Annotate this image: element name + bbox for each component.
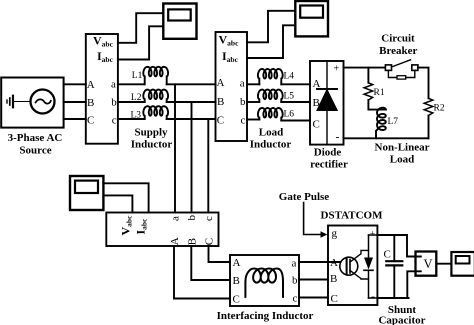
svg-text:L3: L3 bbox=[131, 110, 142, 120]
svg-text:L6: L6 bbox=[284, 110, 295, 120]
wire Iabc1 to scope1 bbox=[118, 26, 163, 59]
VI measurement block 1 bbox=[86, 34, 118, 144]
wire scope3 in1 bbox=[103, 183, 148, 212]
svg-text:Circuit: Circuit bbox=[381, 32, 415, 44]
wire to V box + bbox=[407, 235, 421, 257]
wire + rail to R1 bbox=[367, 68, 369, 83]
svg-text:3-Phase AC: 3-Phase AC bbox=[8, 132, 63, 144]
svg-text:C: C bbox=[331, 293, 338, 305]
wire Vabc1 to scope1 bbox=[118, 13, 163, 43]
svg-text:Source: Source bbox=[19, 145, 51, 157]
svg-text:B: B bbox=[186, 238, 198, 245]
svg-text:c: c bbox=[293, 293, 298, 305]
svg-text:A: A bbox=[233, 257, 241, 269]
wire block1 c to L3 bbox=[118, 118, 145, 120]
wire DSTATCOM - rail bbox=[377, 297, 408, 299]
svg-text:DSTATCOM: DSTATCOM bbox=[321, 209, 384, 221]
circuit breaker bbox=[385, 65, 391, 71]
wire interfacing c to DSTATCOM C bbox=[299, 297, 328, 299]
svg-text:b: b bbox=[111, 96, 117, 108]
wire to V box - bbox=[407, 271, 421, 298]
svg-text:L4: L4 bbox=[284, 72, 295, 82]
IGBT emitter bbox=[350, 271, 369, 280]
wire interfacing b to DSTATCOM B bbox=[299, 279, 328, 281]
svg-text:a: a bbox=[111, 79, 116, 91]
DSTATCOM diode rail bbox=[368, 235, 370, 258]
wire block3 C to interfacing A bbox=[209, 246, 231, 262]
svg-text:Breaker: Breaker bbox=[379, 45, 417, 57]
inductor L5 bbox=[258, 90, 283, 102]
svg-text:A: A bbox=[313, 78, 321, 90]
svg-text:A: A bbox=[217, 77, 225, 89]
inductor L1 bbox=[143, 67, 168, 85]
wire source phase A bbox=[64, 83, 86, 85]
wire block2 b to L5 bbox=[247, 101, 259, 103]
wire L4 to rectifier A bbox=[281, 83, 310, 85]
bottom rail (- of rectifier) bbox=[344, 137, 429, 139]
wire scope3 in2 bbox=[103, 195, 132, 212]
svg-text:Gate Pulse: Gate Pulse bbox=[279, 191, 330, 203]
svg-text:Inductor: Inductor bbox=[131, 139, 173, 151]
scope 3 bbox=[70, 176, 103, 210]
wire Vabc2 to scope2 bbox=[247, 11, 295, 43]
svg-text:L5: L5 bbox=[284, 92, 295, 102]
svg-text:B: B bbox=[87, 97, 94, 109]
shunt capacitor C bbox=[393, 235, 395, 261]
svg-text:b: b bbox=[292, 275, 298, 287]
interfacing inductor block bbox=[230, 255, 299, 306]
wire V box to scope4 bbox=[436, 263, 451, 265]
wire L3 to block2 c bbox=[167, 118, 216, 120]
diode rectifier block bbox=[310, 61, 344, 145]
svg-text:B: B bbox=[233, 275, 240, 287]
svg-text:R1: R1 bbox=[374, 88, 385, 98]
diode triangle bbox=[318, 91, 337, 111]
wire block2 a to L4 bbox=[247, 83, 259, 85]
svg-text:Non-Linear: Non-Linear bbox=[375, 142, 430, 154]
svg-text:C: C bbox=[313, 119, 320, 131]
svg-text:-: - bbox=[371, 289, 375, 303]
wire rectifier + to breaker bbox=[344, 67, 386, 69]
svg-text:b: b bbox=[186, 215, 198, 221]
V measurement box bbox=[416, 252, 437, 276]
svg-text:R2: R2 bbox=[434, 104, 445, 114]
AC source circle bbox=[31, 90, 55, 114]
wire block2 c to L6 bbox=[247, 119, 259, 121]
wire R1 to L7 bbox=[368, 100, 385, 110]
wire breaker to R2 bbox=[418, 68, 429, 99]
DSTATCOM block bbox=[328, 226, 377, 306]
sine wave inside source bbox=[36, 99, 51, 103]
wire block1 b to L2 bbox=[118, 101, 145, 103]
svg-text:+: + bbox=[370, 230, 375, 240]
svg-text:C: C bbox=[204, 238, 216, 245]
scope 4 bbox=[451, 252, 474, 276]
diode cathode bar bbox=[317, 88, 337, 90]
svg-text:Capacitor: Capacitor bbox=[378, 315, 425, 325]
wire DSTATCOM + rail bbox=[377, 234, 407, 236]
svg-text:a: a bbox=[170, 216, 182, 221]
svg-text:c: c bbox=[112, 114, 117, 126]
resistor R1 bbox=[364, 83, 373, 100]
VI measurement block 3 bbox=[106, 213, 218, 247]
inductor L6 bbox=[258, 108, 283, 121]
svg-text:Inductor: Inductor bbox=[250, 139, 292, 151]
VI measurement block 2 bbox=[216, 32, 248, 141]
svg-text:C: C bbox=[87, 114, 94, 126]
svg-text:A: A bbox=[330, 257, 338, 269]
svg-text:g: g bbox=[332, 228, 338, 240]
svg-text:Supply: Supply bbox=[134, 126, 168, 138]
svg-text:a: a bbox=[292, 258, 297, 270]
wire block3 B to interfacing B bbox=[191, 246, 230, 280]
svg-text:B: B bbox=[313, 97, 320, 109]
svg-text:C: C bbox=[384, 249, 391, 261]
svg-text:Load: Load bbox=[390, 154, 414, 166]
bus wire phase A down bbox=[174, 84, 176, 212]
svg-text:Load: Load bbox=[259, 126, 283, 138]
bus wire phase C down bbox=[207, 119, 209, 213]
svg-text:-: - bbox=[336, 130, 340, 144]
inductor L3 bbox=[143, 106, 168, 119]
wire interfacing a to DSTATCOM A bbox=[299, 261, 340, 263]
gate pulse arrow bbox=[304, 203, 321, 235]
wire block1 a to L1 bbox=[118, 83, 145, 85]
IGBT bars bbox=[346, 258, 348, 275]
svg-text:C: C bbox=[217, 115, 224, 127]
wire L5 to rectifier B bbox=[281, 101, 310, 103]
wire L2 to block2 b bbox=[167, 101, 216, 103]
svg-text:c: c bbox=[241, 114, 246, 126]
svg-text:B: B bbox=[330, 273, 337, 285]
wire Iabc2 to scope2 bbox=[247, 25, 295, 58]
svg-text:Interfacing Inductor: Interfacing Inductor bbox=[217, 310, 314, 322]
svg-text:V: V bbox=[424, 257, 433, 271]
resistor R2 bbox=[424, 98, 433, 115]
wire R2 to bottom rail bbox=[428, 116, 430, 139]
wire block3 A to interfacing C bbox=[174, 246, 230, 299]
inductor L2 bbox=[143, 90, 168, 102]
svg-text:L7: L7 bbox=[388, 117, 399, 127]
IGBT circle bbox=[340, 257, 358, 275]
svg-text:A: A bbox=[87, 79, 95, 91]
IGBT collector bbox=[350, 250, 369, 262]
scope 2 bbox=[295, 1, 328, 36]
bus wire phase B down bbox=[191, 102, 193, 213]
svg-text:L2: L2 bbox=[131, 93, 142, 103]
svg-text:Diode: Diode bbox=[314, 147, 342, 159]
svg-text:rectifier: rectifier bbox=[310, 159, 348, 171]
svg-text:a: a bbox=[240, 77, 245, 89]
wire source phase C bbox=[64, 118, 86, 120]
svg-text:A: A bbox=[169, 237, 181, 245]
svg-text:L1: L1 bbox=[132, 71, 143, 81]
inductor L7 vertical bbox=[376, 108, 386, 139]
svg-text:C: C bbox=[233, 293, 240, 305]
scope 1 bbox=[163, 4, 196, 39]
svg-text:+: + bbox=[334, 64, 340, 75]
svg-text:c: c bbox=[203, 216, 215, 221]
wire source phase B bbox=[64, 101, 86, 103]
3-phase AC source block box bbox=[1, 78, 63, 128]
interfacing coil bbox=[245, 269, 283, 297]
wire L1 to block2 a bbox=[167, 83, 216, 85]
svg-text:B: B bbox=[217, 96, 224, 108]
svg-text:b: b bbox=[240, 96, 246, 108]
wire L6 to rectifier C bbox=[281, 120, 310, 122]
inductor L4 bbox=[258, 69, 283, 84]
ground symbol bbox=[14, 101, 31, 103]
